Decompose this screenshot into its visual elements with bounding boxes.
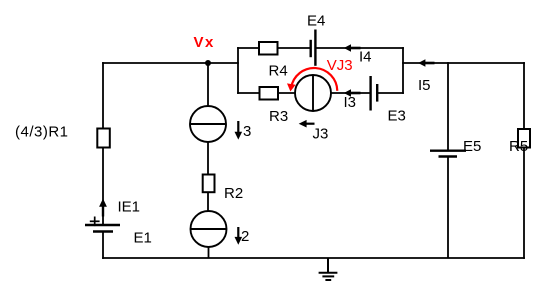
current arrow I4 bbox=[344, 44, 361, 52]
current arrow I3 bbox=[344, 89, 361, 97]
wire middle loop bottom branch center bbox=[331, 92, 371, 94]
svg-text:E5: E5 bbox=[463, 138, 481, 155]
wire left branch lower vertical bbox=[102, 232, 104, 259]
svg-text:I5: I5 bbox=[418, 77, 431, 94]
resistor R5 bbox=[518, 129, 530, 148]
svg-text:3: 3 bbox=[243, 123, 251, 140]
wire middle loop right vertical bbox=[402, 48, 404, 93]
svg-text:R4: R4 bbox=[269, 62, 288, 79]
wire middle branch below current source 2 bbox=[208, 247, 210, 258]
wire middle loop left vertical bbox=[237, 48, 239, 93]
wire E5 branch lower vertical bbox=[447, 157, 449, 259]
wire middle branch between current source 3 and R2 bbox=[207, 142, 209, 175]
arrow J3 below circle bbox=[299, 120, 315, 128]
current arrow I5 bbox=[418, 59, 434, 67]
wire left branch upper vertical bbox=[102, 63, 104, 129]
arrow down 3 bbox=[235, 121, 243, 140]
current source 2 (circle with horizontal bar) bbox=[191, 211, 227, 247]
wire middle loop top branch bbox=[238, 47, 311, 49]
wire top-left horizontal from left branch to middle loop bbox=[103, 62, 238, 64]
current source J3 (circle with vertical bar) bbox=[295, 75, 331, 111]
svg-text:(4/3)R1: (4/3)R1 bbox=[15, 123, 69, 140]
wire left branch middle vertical bbox=[102, 148, 104, 226]
arrow down 2 bbox=[235, 227, 243, 245]
battery E5 bbox=[430, 151, 466, 157]
resistor R2 bbox=[203, 175, 215, 193]
wire I5 horizontal to top right corner bbox=[403, 62, 524, 64]
wire middle branch from node to current source 3 bbox=[207, 63, 209, 106]
svg-text:I3: I3 bbox=[344, 94, 357, 111]
wire R5 branch lower vertical bbox=[523, 148, 525, 259]
battery E1 bbox=[85, 225, 120, 232]
wire middle loop top branch right of E4 bbox=[315, 47, 403, 49]
svg-text:I4: I4 bbox=[359, 48, 372, 65]
battery E4 bbox=[311, 30, 316, 66]
svg-text:R5: R5 bbox=[509, 138, 528, 155]
svg-text:R2: R2 bbox=[224, 185, 243, 202]
wire R5 branch upper vertical bbox=[523, 63, 525, 129]
current arrow IE1 bbox=[99, 199, 107, 217]
svg-text:E4: E4 bbox=[307, 12, 325, 29]
plus sign of E1 bbox=[90, 217, 100, 227]
wire middle loop bottom branch right of E3 bbox=[377, 92, 403, 94]
ground bbox=[319, 258, 338, 280]
svg-text:IE1: IE1 bbox=[118, 198, 141, 215]
svg-text:VJ3: VJ3 bbox=[327, 57, 353, 74]
svg-text:E1: E1 bbox=[134, 230, 152, 247]
current source 3 (circle with horizontal bar) bbox=[190, 106, 226, 142]
resistor R3 bbox=[260, 87, 279, 100]
svg-text:R3: R3 bbox=[269, 108, 288, 125]
svg-text:E3: E3 bbox=[388, 108, 406, 125]
wire middle branch between R2 and current source 2 bbox=[207, 192, 209, 211]
red voltage arc VJ3 bbox=[291, 68, 337, 91]
svg-text:Vx: Vx bbox=[194, 34, 215, 51]
svg-text:2: 2 bbox=[241, 228, 249, 245]
battery E3 bbox=[371, 76, 378, 111]
resistor R1 bbox=[97, 129, 110, 148]
resistor R4 bbox=[259, 42, 278, 55]
wire bottom rail bbox=[103, 257, 524, 259]
red arrowhead of VJ3 bbox=[287, 83, 296, 91]
svg-text:J3: J3 bbox=[313, 126, 329, 143]
wire middle loop bottom branch left bbox=[238, 92, 295, 94]
wire E5 branch upper vertical bbox=[447, 63, 449, 151]
node Vx dot bbox=[205, 60, 211, 66]
